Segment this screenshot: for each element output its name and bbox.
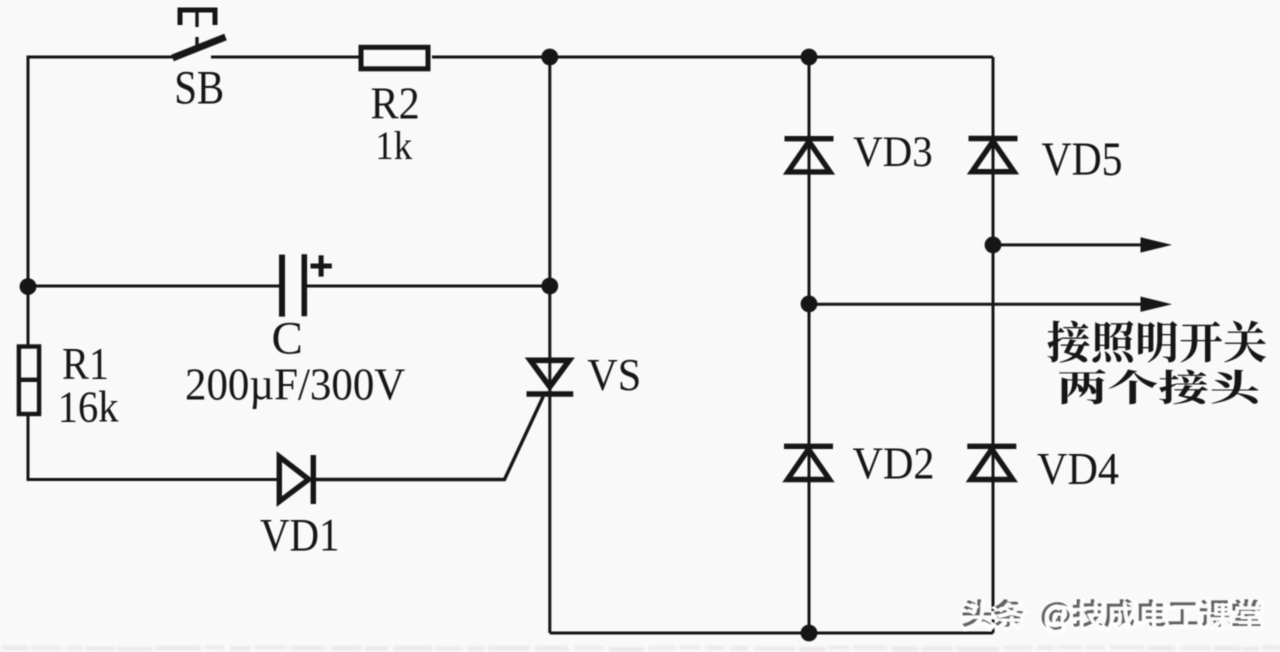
junction node G bottom <box>801 625 818 642</box>
svg-text:16k: 16k <box>58 383 119 432</box>
svg-text:VS: VS <box>587 349 641 400</box>
svg-text:VD3: VD3 <box>853 129 933 176</box>
diode VD2 <box>784 446 833 479</box>
junction node B top-mid <box>801 49 818 66</box>
wire left vertical lower and gate horizontal <box>28 414 278 480</box>
svg-text:VD5: VD5 <box>1042 133 1123 186</box>
svg-text:VD4: VD4 <box>1037 443 1119 494</box>
wire switch to R2 <box>211 56 359 59</box>
diode VD3 <box>785 139 834 172</box>
wire arrow2 lead <box>809 303 1147 306</box>
svg-text:SB: SB <box>174 62 224 115</box>
pushbutton SB stem <box>195 12 198 49</box>
junction node E output1 <box>985 237 1002 254</box>
wire center vertical x=550 <box>548 57 551 633</box>
resistor R1 body <box>17 347 41 415</box>
svg-text:R2: R2 <box>371 77 420 128</box>
svg-text:C: C <box>272 312 303 364</box>
wire top-left horizontal <box>28 57 174 59</box>
wire capacitor left <box>28 285 280 288</box>
pushbutton SB actuator cap <box>180 10 215 25</box>
junction node C left-mid <box>20 278 37 295</box>
arrowhead output2 <box>1141 297 1173 312</box>
svg-text:200µF/300V: 200µF/300V <box>185 359 405 410</box>
wire arrow1 lead <box>993 243 1147 246</box>
diode VD4 <box>967 446 1016 479</box>
svg-text:1k: 1k <box>375 123 412 168</box>
diode VD5 <box>969 139 1018 172</box>
junction node A top-center <box>541 49 558 66</box>
annotation text line1 jie-zhao-ming-kai-guan <box>1047 321 1265 363</box>
watermark toutiao@jicheng <box>962 599 1264 633</box>
junction node F output2 <box>801 296 818 313</box>
wire right vertical x=993 <box>992 57 995 633</box>
svg-text:VD2: VD2 <box>853 438 935 489</box>
wire R2 to right corner <box>432 56 993 59</box>
capacitor C plates <box>279 254 307 316</box>
svg-text:R1: R1 <box>62 338 109 389</box>
wire middle vertical x=809 <box>808 57 811 633</box>
wire bottom rail <box>550 632 993 635</box>
wire left vertical upper <box>27 57 30 346</box>
svg-text:VD1: VD1 <box>260 509 340 561</box>
pushbutton SB blade <box>173 37 226 58</box>
wire capacitor right <box>306 285 550 288</box>
diode VD1 <box>279 455 313 504</box>
faint cropped watermark band at bottom edge <box>2 646 1280 652</box>
junction node D cap-right <box>541 278 558 295</box>
arrowhead output1 <box>1141 237 1173 252</box>
resistor R2 body <box>361 47 428 69</box>
wire VD1 to gate diagonal <box>315 397 543 480</box>
annotation text line2 liang-ge-jie-tou <box>1059 369 1259 404</box>
thyristor VS <box>527 360 574 394</box>
capacitor C polarity plus <box>311 255 332 276</box>
